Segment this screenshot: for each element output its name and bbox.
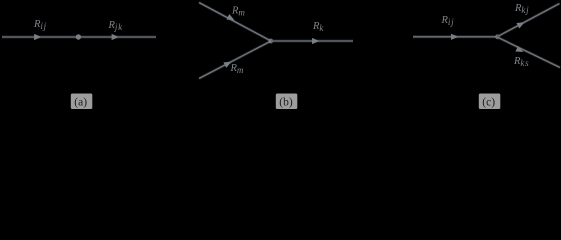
arrowhead on R_jk segment: [112, 34, 120, 40]
svg-text:Rk: Rk: [312, 21, 324, 33]
arrowhead on upper outgoing diagonal: [516, 19, 526, 28]
node k (vertex dot): [495, 34, 500, 39]
svg-text:Rij: Rij: [33, 19, 47, 31]
caption chip (a): [71, 94, 93, 110]
wire (c) incoming horizontal: [413, 35, 497, 38]
arrowhead on lower outgoing diagonal: [515, 46, 524, 55]
wire (c) outgoing lower diagonal: [497, 37, 560, 68]
arrowhead on outgoing horizontal: [312, 38, 320, 44]
svg-text:Rm: Rm: [230, 63, 245, 75]
node m (vertex dot): [268, 39, 273, 44]
svg-text:(b): (b): [279, 97, 293, 109]
arrowhead on R_ij segment: [34, 34, 42, 40]
svg-text:Rjk: Rjk: [108, 20, 124, 32]
caption chip (c): [479, 94, 501, 110]
svg-text:Rks: Rks: [513, 56, 529, 68]
svg-text:Rij: Rij: [441, 15, 455, 27]
svg-text:Rm: Rm: [231, 6, 246, 18]
wire (b) lower incoming diagonal: [199, 41, 271, 79]
arrowhead on incoming horizontal: [451, 34, 459, 40]
wire (b) outgoing horizontal: [271, 40, 353, 43]
wire (a) main line: [2, 36, 156, 39]
wire (b) upper incoming diagonal: [199, 3, 271, 42]
svg-text:Rkj: Rkj: [514, 3, 529, 15]
arrowhead on upper diagonal: [226, 14, 236, 23]
svg-text:(a): (a): [74, 97, 87, 109]
node j (dot): [76, 34, 81, 39]
svg-text:(c): (c): [482, 97, 495, 109]
caption chip (b): [276, 94, 298, 110]
wire (c) outgoing upper diagonal: [497, 4, 560, 37]
arrowhead on lower diagonal: [223, 59, 233, 68]
